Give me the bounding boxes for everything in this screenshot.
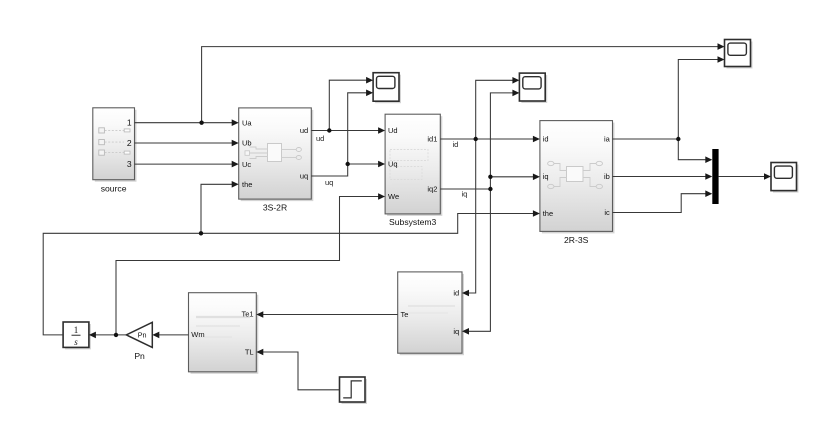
svg-text:Subsystem3: Subsystem3 <box>389 217 437 227</box>
svg-text:ib: ib <box>604 172 610 181</box>
svg-text:Ua: Ua <box>242 118 252 127</box>
svg-text:uq: uq <box>325 178 333 187</box>
svg-text:Wm: Wm <box>191 330 204 339</box>
svg-text:iq: iq <box>453 327 459 336</box>
svg-text:Te: Te <box>401 310 409 319</box>
svg-text:iq: iq <box>543 172 549 181</box>
svg-text:We: We <box>388 192 399 201</box>
svg-text:id1: id1 <box>427 135 437 144</box>
svg-text:1: 1 <box>74 325 79 335</box>
svg-text:iq2: iq2 <box>427 185 437 194</box>
svg-text:id: id <box>453 140 459 149</box>
svg-text:source: source <box>101 184 127 194</box>
svg-text:TL: TL <box>245 348 254 357</box>
svg-text:Ub: Ub <box>242 139 252 148</box>
svg-text:Te1: Te1 <box>242 310 254 319</box>
svg-text:id: id <box>453 289 459 298</box>
svg-text:3S-2R: 3S-2R <box>263 203 287 213</box>
svg-text:Uq: Uq <box>388 160 398 169</box>
svg-text:ud: ud <box>300 126 308 135</box>
svg-text:s: s <box>74 337 78 347</box>
svg-text:Pn: Pn <box>138 331 147 340</box>
svg-text:2R-3S: 2R-3S <box>564 235 589 245</box>
svg-text:ud: ud <box>316 134 324 143</box>
svg-text:the: the <box>543 209 553 218</box>
svg-text:Pn: Pn <box>134 351 145 361</box>
svg-text:Uc: Uc <box>242 160 251 169</box>
svg-text:Ud: Ud <box>388 126 398 135</box>
svg-text:1: 1 <box>127 118 132 128</box>
svg-text:id: id <box>543 135 549 144</box>
svg-text:iq: iq <box>462 190 468 199</box>
svg-text:uq: uq <box>300 172 308 181</box>
svg-text:ic: ic <box>604 208 610 217</box>
svg-text:ia: ia <box>604 135 611 144</box>
svg-text:3: 3 <box>127 159 132 169</box>
svg-text:the: the <box>242 180 252 189</box>
svg-text:2: 2 <box>127 138 132 148</box>
